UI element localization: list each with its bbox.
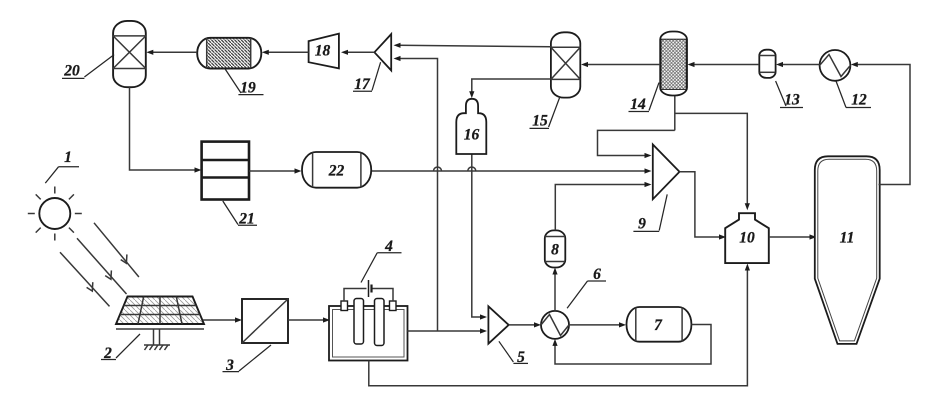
wire branch to furnace 10 top: [675, 113, 750, 210]
solar ray arrow a: [94, 223, 139, 277]
wire 20 bottom to stack 21: [130, 87, 202, 172]
svg-text:8: 8: [551, 242, 559, 259]
wire 21 to vessel 22: [249, 168, 302, 173]
svg-text:9: 9: [638, 216, 646, 233]
svg-text:10: 10: [739, 230, 755, 247]
wire 6 top to vessel 8: [552, 268, 557, 311]
battery wiring: [344, 289, 393, 302]
wire 15 bottom to bottle 16: [469, 79, 551, 98]
label 21: [223, 201, 257, 228]
vessel 22: [302, 152, 371, 188]
electrode right: [375, 299, 385, 346]
solar ray arrow c: [60, 252, 110, 306]
svg-text:12: 12: [851, 92, 867, 109]
battery cell 4: [369, 280, 372, 297]
svg-text:11: 11: [840, 230, 855, 247]
label 2: [101, 334, 140, 362]
label 1: [45, 149, 79, 183]
turbine 17: [374, 34, 391, 70]
wire bottle 16 to ejector 5 (upper input): [472, 154, 487, 320]
vessel 8: [545, 230, 566, 267]
panel ground: [144, 345, 170, 350]
label 9: [633, 194, 667, 232]
label 15: [530, 98, 560, 130]
svg-text:17: 17: [354, 76, 371, 93]
label 3: [223, 345, 272, 374]
label 17: [353, 62, 381, 93]
column 15: [551, 32, 580, 97]
label 13: [776, 81, 803, 109]
svg-text:19: 19: [240, 80, 256, 97]
compressor 18: [309, 34, 339, 69]
column 20: [113, 21, 146, 87]
wire mixer 9 to furnace 10: [680, 172, 727, 240]
label 19: [225, 69, 264, 97]
svg-text:18: 18: [315, 43, 331, 60]
svg-text:16: 16: [464, 127, 480, 144]
electrode left: [354, 299, 364, 345]
svg-text:1: 1: [64, 149, 72, 166]
panel post: [154, 330, 160, 345]
panel base rail: [116, 328, 204, 330]
solar panel (component 2): [116, 297, 204, 325]
wire 18 to hx 19: [262, 50, 309, 55]
vessel 7: [627, 307, 692, 342]
heat exchanger 6: [541, 311, 569, 339]
heat exchanger 12: [820, 50, 851, 81]
sun (component 1): [39, 198, 70, 229]
label 6: [567, 266, 606, 308]
svg-text:7: 7: [654, 317, 663, 334]
wire 11 to hx 12: [851, 62, 910, 185]
wire 14 to column 15: [581, 62, 660, 67]
bottle 16: [456, 99, 486, 154]
svg-text:13: 13: [784, 92, 800, 109]
wire 7 recycle to 6 bottom: [552, 325, 711, 365]
wire panel to 3: [203, 317, 242, 322]
label 4: [361, 238, 402, 283]
svg-text:15: 15: [532, 113, 548, 130]
vessel 11: [815, 156, 880, 344]
wire 15 top to turbine 17: [394, 43, 551, 48]
terminal nub right: [390, 301, 397, 311]
wire 14 bottom drop: [674, 96, 676, 131]
sun rays: [28, 187, 82, 241]
long wire 22 to mixer 9 with hops: [371, 167, 651, 174]
label 20: [62, 55, 114, 80]
electrolyzer tank: [329, 306, 408, 361]
wire 5 to hx 6: [509, 322, 541, 327]
label 14: [629, 83, 660, 113]
wire 13 to reactor 14: [688, 62, 760, 67]
wire 10 to vessel 11: [769, 234, 817, 239]
wire 19 to column 20: [146, 50, 197, 55]
terminal nub left: [341, 301, 348, 311]
wire branch to mixer 9 top input: [598, 130, 675, 158]
wire electrolyzer bottom to furnace 10: [369, 264, 750, 386]
wire 6 to vessel 7: [569, 322, 626, 327]
wire riser to turbine 17: [394, 56, 438, 331]
wire 3 to electrolyzer: [288, 317, 330, 322]
wire 12 to vessel 13: [776, 62, 820, 67]
svg-text:22: 22: [328, 163, 345, 180]
solar ray arrow b: [77, 238, 127, 294]
wire electrolyzer to ejector 5 (lower input): [407, 328, 488, 333]
converter 3: [242, 299, 288, 343]
label 12: [836, 81, 871, 109]
furnace 10: [725, 213, 769, 263]
svg-text:14: 14: [630, 96, 646, 113]
ejector 5: [488, 306, 508, 343]
wire 17 to compressor 18: [341, 50, 374, 55]
mixer 9: [653, 145, 680, 200]
reactor 14: [660, 32, 687, 96]
stack 21: [202, 142, 249, 200]
svg-text:20: 20: [63, 63, 80, 80]
vessel 13: [759, 50, 775, 78]
heat exchanger 19: [197, 38, 261, 69]
label 5: [499, 341, 528, 366]
wire 8 top to mixer 9: [555, 182, 651, 231]
